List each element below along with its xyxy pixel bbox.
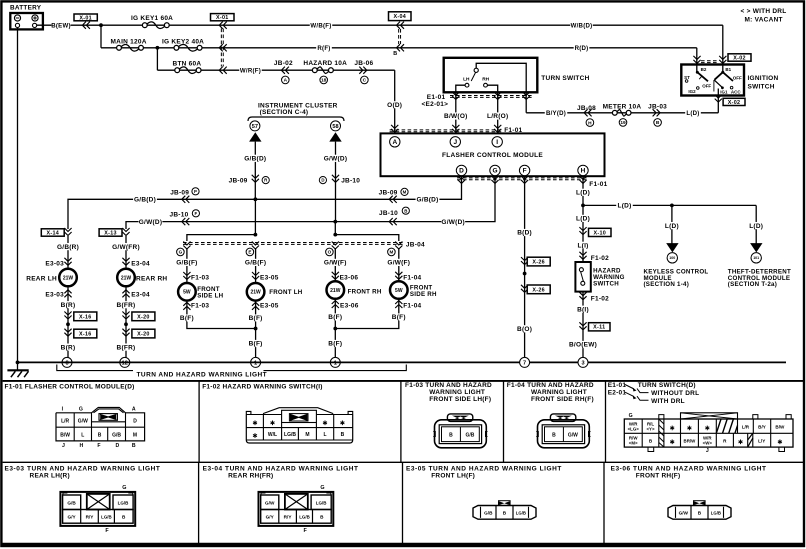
- svg-text:X-01: X-01: [216, 15, 229, 21]
- node 100 keyless: [667, 253, 677, 263]
- svg-text:B: B: [122, 515, 126, 520]
- svg-text:D: D: [321, 178, 324, 183]
- svg-text:JB-09: JB-09: [229, 177, 248, 184]
- connector F1-03 chevron upper: [183, 272, 190, 280]
- connector E3-06 chevron upper: [332, 272, 339, 280]
- svg-text:B: B: [552, 432, 556, 438]
- svg-text:A: A: [132, 406, 136, 412]
- svg-text:5W: 5W: [395, 288, 403, 294]
- label B(R) lower: [60, 344, 77, 351]
- svg-text:M: M: [403, 189, 407, 194]
- svg-text:WARNING LIGHT: WARNING LIGHT: [429, 389, 485, 396]
- svg-text:G: G: [79, 406, 83, 412]
- svg-text:L(D): L(D): [749, 223, 763, 230]
- label G/B(F) col4: [244, 259, 268, 266]
- table header E1-01 / E2-01: [608, 382, 700, 405]
- lamp front RH turn signal 21W: [327, 281, 345, 299]
- connector X-01 second box: [211, 14, 235, 21]
- wire G/B(D) to cluster 57: [254, 142, 256, 200]
- svg-text:X-16: X-16: [79, 314, 92, 320]
- svg-text:G/B(F): G/B(F): [245, 260, 266, 267]
- svg-text:IGNITION: IGNITION: [748, 75, 779, 82]
- svg-text:E3-05: E3-05: [260, 275, 279, 282]
- svg-text:H: H: [80, 443, 84, 449]
- label B/O(EW): [569, 341, 596, 348]
- connector X-02 box top: [728, 54, 751, 61]
- junction node front G/W: [333, 233, 337, 237]
- label L(D) keyless: [664, 222, 681, 229]
- flasher pin D: [456, 165, 466, 175]
- connector F1-04 chevron upper: [395, 272, 402, 280]
- wire RH contact to flasher pin I: [487, 85, 497, 133]
- node E of JB-04: [246, 248, 254, 256]
- svg-text:B: B: [656, 120, 660, 126]
- wire hazard feed to flasher pin A: [394, 70, 396, 133]
- svg-text:FRONT RH(F): FRONT RH(F): [636, 473, 681, 480]
- connector X-04 box: [389, 12, 412, 21]
- svg-text:E3-06: E3-06: [340, 303, 359, 310]
- connector X-11 box: [589, 323, 611, 331]
- connector E3-05 chevron upper: [252, 272, 259, 280]
- connector E1-01 pinout drawing: [624, 413, 793, 454]
- svg-text:SIDE RH: SIDE RH: [410, 291, 437, 298]
- svg-text:BTN 60A: BTN 60A: [173, 60, 202, 67]
- hazard warning switch label: [593, 267, 625, 287]
- junction block JB-04 dashed link: [183, 242, 403, 244]
- svg-text:L(D): L(D): [576, 216, 590, 223]
- svg-text:X-04: X-04: [393, 14, 406, 20]
- lamp front side RH 5W: [390, 281, 408, 299]
- svg-text:LG/B: LG/B: [118, 500, 129, 505]
- node 58 turn indicator RH: [331, 121, 341, 131]
- junction node main feed: [99, 23, 103, 27]
- connector F1-01 chevron pin H: [579, 176, 586, 184]
- svg-text:E: E: [248, 250, 251, 255]
- svg-text:L/R: L/R: [61, 418, 69, 424]
- wire R(D) drop to ignition B2: [696, 48, 698, 72]
- flasher pin H: [578, 165, 588, 175]
- svg-text:R(F): R(F): [317, 45, 330, 52]
- label B(FR) lower: [116, 344, 136, 351]
- terminal arrow to node 57: [249, 132, 261, 141]
- wire rear RH lamp ground: [125, 286, 127, 362]
- svg-text:TURN SWITCH(D): TURN SWITCH(D): [638, 382, 696, 389]
- node M of JB-04: [388, 248, 396, 256]
- junction node after MAIN fuse: [156, 46, 160, 50]
- svg-text:B/Y: B/Y: [758, 425, 766, 430]
- JB-04 chevron col front LH: [252, 242, 259, 250]
- svg-text:B: B: [449, 432, 453, 438]
- wire drop to theft-deterrent module: [755, 205, 757, 244]
- svg-text:R(D): R(D): [575, 45, 589, 52]
- wire turn switch common to B/Y(D): [476, 63, 526, 113]
- svg-text:X-01: X-01: [79, 15, 92, 21]
- table header F1-03: [405, 382, 492, 403]
- svg-text:X-02: X-02: [728, 100, 741, 106]
- label G/W(D) right: [441, 218, 465, 225]
- wire L(D) branch to keyless and theft modules: [583, 204, 756, 206]
- hazard warning switch S1: [575, 262, 590, 292]
- label R(D): [574, 44, 590, 51]
- svg-text:<W>: <W>: [703, 441, 713, 446]
- svg-text:BR/W: BR/W: [684, 438, 697, 443]
- label G/W(D) cluster: [324, 155, 348, 162]
- wire G/B branch to front LH lamps: [254, 199, 256, 234]
- connector X-04 chevron row2: [397, 44, 405, 51]
- ground rail wire: [18, 361, 787, 363]
- svg-text:LH: LH: [463, 76, 470, 82]
- wire W/B(D) drop to ignition B1: [722, 25, 724, 71]
- svg-text:G/B: G/B: [465, 432, 474, 438]
- svg-text:JB-06: JB-06: [354, 60, 373, 67]
- lamp front LH turn signal 21W: [247, 283, 265, 301]
- connector F1-02 pinout drawing: [246, 408, 352, 443]
- svg-text:8: 8: [65, 360, 68, 366]
- wire G/W(D) to cluster 58: [335, 142, 337, 222]
- connector F1-01 dashed link bottom: [457, 178, 589, 180]
- svg-text:REAR LH(R): REAR LH(R): [30, 473, 70, 480]
- svg-text:F1-04: F1-04: [403, 275, 421, 282]
- connector F1-01 chevron pin D: [458, 176, 465, 184]
- wire hazard switch to ground node 3: [582, 292, 584, 363]
- turn switch RH contact: [482, 76, 489, 87]
- svg-text:WARNING LIGHT: WARNING LIGHT: [531, 389, 587, 396]
- svg-text:SWITCH: SWITCH: [748, 84, 775, 91]
- svg-text:J: J: [453, 139, 457, 146]
- svg-text:B(F): B(F): [328, 314, 342, 321]
- keyless control module label: [644, 268, 709, 288]
- svg-text:R/Y: R/Y: [86, 515, 95, 520]
- svg-text:JB-09: JB-09: [379, 190, 398, 197]
- wire G/W branch to front RH lamps: [334, 222, 336, 235]
- svg-text:G/W: G/W: [78, 418, 88, 424]
- junction node X-16: [66, 322, 70, 326]
- svg-text:WITHOUT DRL: WITHOUT DRL: [651, 390, 699, 397]
- connector X-26 box lower: [527, 285, 550, 294]
- svg-text:B: B: [393, 51, 397, 57]
- wire front LH lamp feed: [255, 248, 257, 283]
- svg-text:LG/B: LG/B: [299, 515, 310, 520]
- wire rear RH lamp feed: [125, 236, 127, 269]
- svg-text:B: B: [98, 432, 102, 438]
- connector F1-03 chevron lower: [183, 302, 190, 310]
- wire branch down to BTN fuse: [156, 48, 158, 70]
- svg-text:J: J: [62, 443, 65, 449]
- connector X-14 box: [41, 229, 64, 236]
- svg-text:ACC: ACC: [731, 89, 741, 94]
- flasher control module box U F1-01: [381, 133, 605, 176]
- wire front RH ground: [334, 299, 336, 363]
- svg-text:I: I: [496, 139, 498, 146]
- svg-text:E3-04 TURN AND HAZARD WARNING: E3-04 TURN AND HAZARD WARNING LIGHT: [203, 466, 359, 473]
- lamp rear LH turn signal 21W: [59, 269, 77, 287]
- svg-text:OFF: OFF: [702, 84, 711, 89]
- svg-text:58: 58: [332, 124, 338, 130]
- wire rear LH lamp feed: [67, 236, 69, 269]
- label B(I): [575, 306, 592, 313]
- svg-text:B/O(EW): B/O(EW): [569, 342, 597, 349]
- svg-text:FRONT SIDE RH(F): FRONT SIDE RH(F): [531, 396, 594, 403]
- svg-text:B(R): B(R): [61, 344, 76, 351]
- svg-text:F1-01: F1-01: [589, 181, 607, 188]
- wire G/B(D) from flasher pin D to rear LH lamp: [68, 176, 462, 229]
- svg-text:F1-02 HAZARD WARNING SWITCH(I): F1-02 HAZARD WARNING SWITCH(I): [202, 383, 323, 390]
- svg-text:J: J: [706, 448, 709, 454]
- terminal arrow to node 58: [329, 132, 341, 141]
- label G/W(FR): [112, 243, 139, 250]
- connector F1-01 chevron pin I: [494, 125, 501, 132]
- junction block JB-10 chevron D: [319, 177, 326, 184]
- svg-text:P: P: [194, 189, 197, 194]
- svg-text:100: 100: [669, 256, 675, 260]
- svg-text:G: G: [492, 168, 497, 175]
- wire across to front side LH column: [187, 235, 256, 241]
- svg-text:X-02: X-02: [733, 55, 746, 61]
- connector E3-04 chevron lower: [122, 290, 129, 298]
- label R(F): [316, 44, 332, 51]
- svg-text:L: L: [81, 432, 84, 438]
- node H of JB-08: [586, 119, 594, 127]
- svg-text:O(D): O(D): [387, 102, 402, 109]
- svg-text:REAR RH: REAR RH: [136, 275, 167, 282]
- svg-text:12: 12: [122, 360, 128, 366]
- svg-text:JB-09: JB-09: [170, 190, 189, 197]
- connector X-13 chevron: [122, 228, 129, 236]
- svg-text:X-20: X-20: [137, 314, 150, 320]
- svg-text:IG1: IG1: [720, 89, 728, 94]
- svg-text:<M>: <M>: [629, 441, 638, 446]
- svg-text:G/B: G/B: [112, 432, 121, 438]
- svg-text:L: L: [323, 432, 326, 438]
- svg-text:F: F: [523, 168, 527, 175]
- svg-text:B: B: [698, 511, 702, 516]
- svg-text:M: M: [305, 432, 309, 438]
- junction node battery ground: [16, 361, 20, 365]
- svg-text:57: 57: [252, 124, 258, 130]
- svg-text:FRONT SIDE LH(F): FRONT SIDE LH(F): [429, 396, 491, 403]
- svg-text:BATTERY: BATTERY: [10, 5, 42, 12]
- svg-text:F1-03 TURN AND HAZARD: F1-03 TURN AND HAZARD: [405, 382, 492, 389]
- svg-text:E3-04: E3-04: [131, 260, 150, 267]
- svg-text:E3-03: E3-03: [45, 260, 64, 267]
- svg-text:H: H: [588, 120, 592, 126]
- label B(F) col6: [391, 313, 408, 320]
- svg-text:X-11: X-11: [593, 325, 605, 331]
- svg-text:E3-05 TURN AND HAZARD WARNING: E3-05 TURN AND HAZARD WARNING LIGHT: [406, 466, 562, 473]
- svg-text:(SECTION 1-4): (SECTION 1-4): [644, 281, 690, 288]
- label B(O): [516, 325, 533, 332]
- svg-text:LG/B: LG/B: [711, 511, 721, 516]
- wire front RH lamp feed: [334, 248, 336, 281]
- svg-text:D: D: [116, 443, 120, 449]
- svg-text:X-10: X-10: [593, 230, 606, 236]
- svg-text:G/B(R): G/B(R): [57, 244, 79, 251]
- label B(R) upper: [60, 301, 77, 308]
- connector X-20 box upper: [132, 312, 155, 321]
- junction node keyless branch: [670, 204, 674, 208]
- node 18 of hazard fuse: [320, 76, 328, 84]
- svg-text:W/B(F): W/B(F): [310, 22, 331, 29]
- connector F1-04 chevron lower: [395, 301, 402, 309]
- svg-text:B/Y(D): B/Y(D): [546, 110, 566, 117]
- svg-text:G/Y: G/Y: [266, 515, 275, 520]
- wire front side LH lamp feed: [186, 248, 188, 283]
- svg-text:21W: 21W: [63, 275, 74, 281]
- svg-text:G/B(F): G/B(F): [176, 260, 197, 267]
- svg-text:L/Y: L/Y: [758, 438, 765, 443]
- label G/B(R): [56, 243, 80, 250]
- node 57 turn indicator LH: [250, 121, 260, 131]
- svg-text:B: B: [404, 208, 407, 213]
- label B(F) col4 lower: [247, 340, 264, 347]
- svg-text:F1-03: F1-03: [191, 275, 209, 282]
- connector X-14 chevron: [64, 228, 71, 236]
- svg-text:D: D: [133, 418, 137, 424]
- label L/R(O): [486, 112, 510, 119]
- label B(FR) upper: [116, 301, 136, 308]
- wire G/W(D) from flasher pin G to rear RH lamp: [126, 176, 495, 229]
- svg-text:HAZARD 10A: HAZARD 10A: [303, 60, 347, 67]
- connector E3-06 chevron lower: [332, 301, 339, 309]
- table header E3-05: [406, 466, 562, 480]
- wire across to front side RH column: [335, 235, 399, 241]
- label B/Y(D): [545, 109, 567, 116]
- svg-text:B(O): B(O): [517, 326, 532, 333]
- svg-text:LG/B: LG/B: [516, 511, 526, 516]
- svg-text:JB-02: JB-02: [274, 60, 293, 67]
- lamp front side LH 5W: [178, 283, 196, 301]
- svg-text:R/Y: R/Y: [284, 515, 293, 520]
- terminal arrow keyless: [666, 243, 678, 252]
- svg-text:B(F): B(F): [392, 314, 406, 321]
- svg-text:TURN SWITCH: TURN SWITCH: [541, 75, 589, 82]
- svg-text:O: O: [328, 250, 332, 255]
- connector F1-01 dashed link top: [390, 130, 502, 132]
- junction node G/W to cluster 58: [333, 220, 337, 224]
- flasher pin I: [492, 137, 502, 147]
- connector F1-02 chevron upper: [579, 252, 586, 259]
- connector X-01 chevron on B(EW) wire: [82, 22, 90, 29]
- wire ignition IG1 output: [717, 89, 719, 113]
- svg-text:G/W: G/W: [265, 500, 275, 505]
- svg-text:F: F: [97, 443, 100, 449]
- connector X-20 chevron upper: [122, 312, 129, 320]
- connector X-16 chevron upper: [64, 312, 71, 320]
- connector F1-03 pinout drawing: [433, 414, 487, 448]
- svg-text:L/R: L/R: [742, 425, 750, 430]
- label L(D) branch: [616, 202, 633, 209]
- svg-text:(SECTION T-2a): (SECTION T-2a): [728, 281, 777, 288]
- svg-text:B(F): B(F): [180, 315, 194, 322]
- ground symbol: [7, 362, 28, 377]
- wire branch down to MAIN fuse: [100, 25, 102, 48]
- svg-text:X-26: X-26: [532, 259, 545, 265]
- wire L(D)/B/Y(D) meter feed row: [526, 112, 718, 114]
- connector X-02 box bottom: [723, 98, 745, 105]
- svg-text:5W: 5W: [183, 290, 191, 296]
- wire front side RH lamp feed: [398, 248, 400, 281]
- wire L(D) from flasher pin H to hazard switch: [582, 176, 584, 262]
- svg-text:G/B: G/B: [67, 500, 76, 505]
- label W/B(D): [570, 22, 592, 29]
- svg-text:18: 18: [321, 78, 327, 84]
- connector X-20 box lower: [132, 329, 155, 338]
- label G/W(F) col6: [387, 259, 411, 266]
- svg-text:F1-04 TURN AND HAZARD: F1-04 TURN AND HAZARD: [507, 382, 594, 389]
- connector X-01 chevron row3: [219, 67, 227, 74]
- connector X-04 chevron row1: [397, 22, 405, 29]
- turn and hazard warning light bracket: [57, 365, 407, 371]
- svg-text:G/B(D): G/B(D): [244, 156, 266, 163]
- svg-text:F: F: [195, 211, 198, 216]
- svg-text:G/W(F): G/W(F): [324, 260, 347, 267]
- wire R(F)/R(D) row: [101, 47, 697, 49]
- flasher pin F: [519, 165, 529, 175]
- ground node 3: [578, 357, 588, 367]
- svg-text:B(D): B(D): [517, 230, 532, 237]
- instrument cluster label: [258, 103, 338, 116]
- svg-text:L(D): L(D): [576, 190, 590, 197]
- svg-text:(SECTION C-4): (SECTION C-4): [260, 109, 309, 116]
- svg-text:F1-02: F1-02: [591, 255, 609, 262]
- svg-text:FRONT LH: FRONT LH: [269, 289, 303, 296]
- svg-text:W/R: W/R: [629, 421, 638, 426]
- svg-text:1: 1: [334, 360, 337, 366]
- junction node front LH grounds: [254, 327, 258, 331]
- svg-text:F1-02: F1-02: [591, 295, 609, 302]
- svg-text:LG/B: LG/B: [101, 515, 112, 520]
- junction node front RH grounds: [333, 327, 337, 331]
- svg-text:G/W: G/W: [568, 432, 578, 438]
- label L(I): [575, 242, 592, 249]
- label B/W(O): [444, 112, 468, 119]
- junction node G/B to cluster 57: [254, 197, 258, 201]
- svg-text:E3-04: E3-04: [131, 292, 150, 299]
- svg-text:W/L: W/L: [268, 432, 277, 438]
- label B(F) col3: [179, 314, 196, 321]
- ground node 7: [520, 357, 530, 367]
- svg-text:G: G: [122, 485, 126, 491]
- terminal arrow theft: [750, 243, 762, 252]
- turn switch box: [444, 58, 538, 93]
- connector X-11 chevron: [579, 322, 586, 330]
- label G/B(D) right: [416, 196, 440, 203]
- ground node 1 front LH: [251, 357, 261, 367]
- label B(D): [516, 229, 533, 236]
- label L(D) under pin H: [575, 189, 592, 196]
- table header F1-04: [507, 382, 594, 403]
- label L(D) above X-10: [575, 215, 592, 222]
- connector E1-01 chevron LH wire: [452, 92, 459, 100]
- label G/B(D) cluster: [243, 155, 267, 162]
- svg-text:W/R: W/R: [703, 435, 712, 440]
- svg-text:21W: 21W: [121, 275, 132, 281]
- connector X-02 chevron on R(D): [693, 56, 700, 64]
- svg-text:M: VACANT: M: VACANT: [745, 17, 783, 24]
- svg-text:3: 3: [581, 360, 584, 366]
- svg-text:B(R): B(R): [61, 302, 76, 309]
- svg-text:R/W: R/W: [629, 435, 638, 440]
- svg-text:E3-05: E3-05: [260, 303, 279, 310]
- svg-text:G/B(D): G/B(D): [134, 197, 156, 204]
- label W/B(F): [310, 22, 332, 29]
- node B of JB-03: [654, 119, 662, 127]
- wire drop to keyless module: [671, 205, 673, 244]
- ground node 12: [120, 357, 130, 367]
- svg-text:JB-10: JB-10: [170, 211, 189, 218]
- svg-text:G/B(D): G/B(D): [416, 197, 438, 204]
- flasher pin J: [450, 137, 460, 147]
